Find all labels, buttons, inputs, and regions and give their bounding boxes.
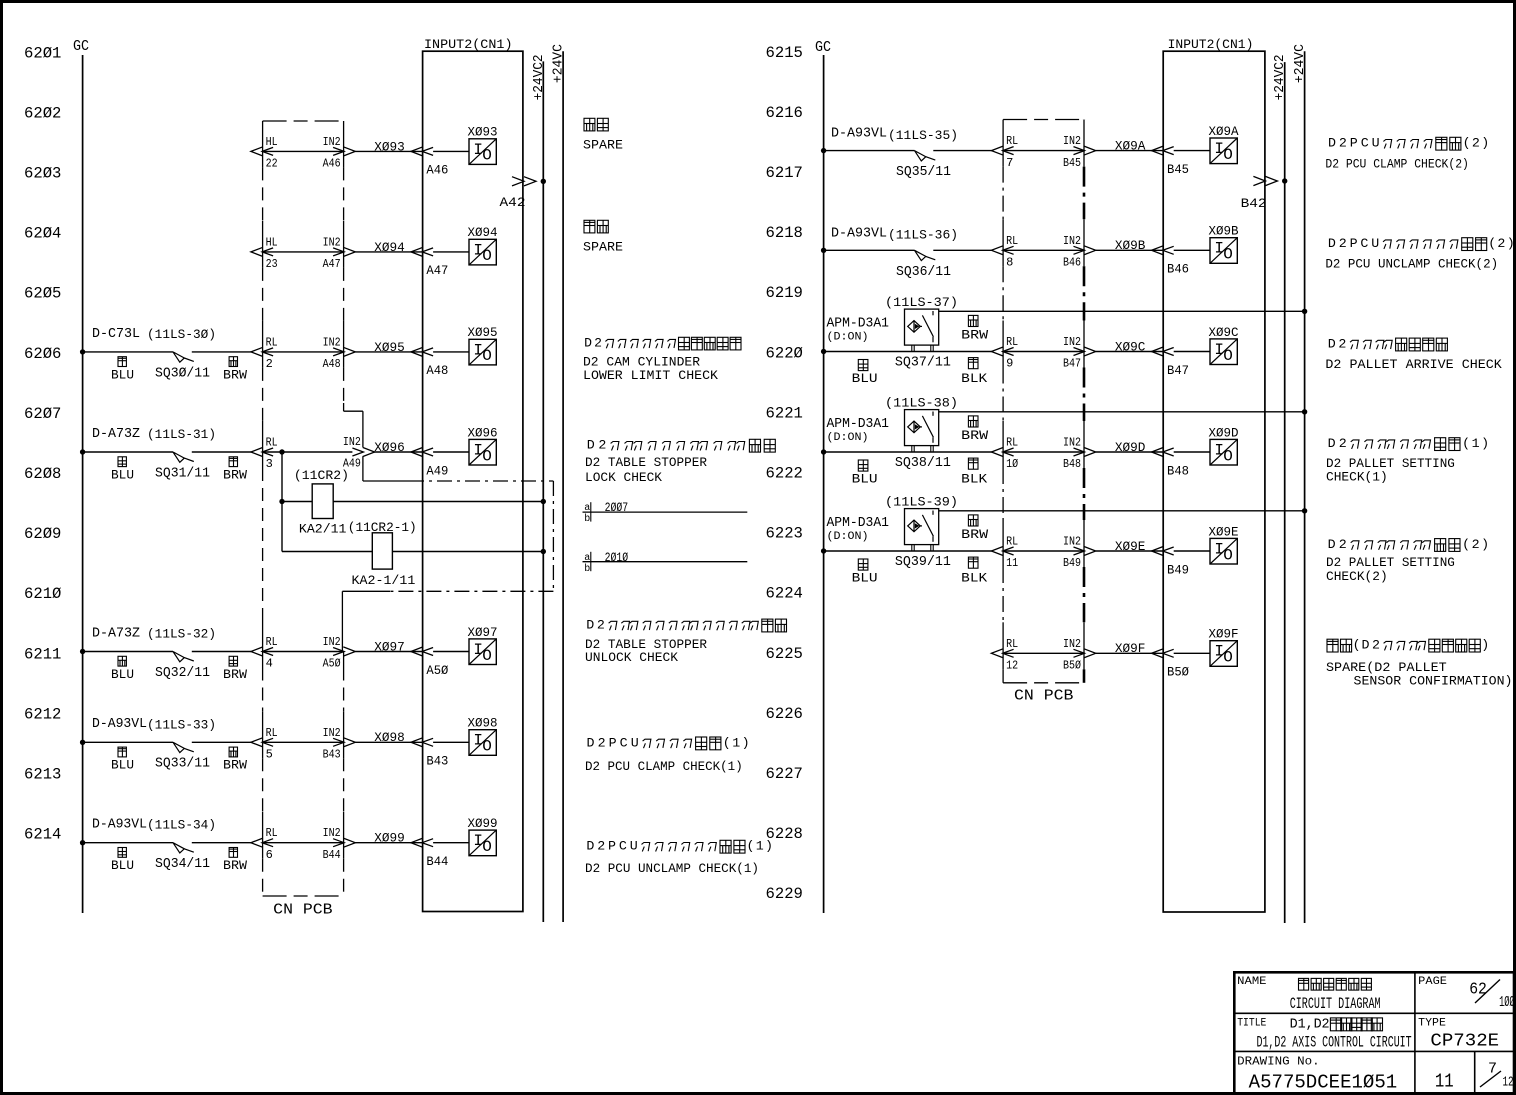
svg-text:A48: A48 [426,364,448,378]
svg-text:(11LS-39): (11LS-39) [885,495,958,510]
svg-text:62Ø1: 62Ø1 [24,44,61,62]
svg-text:INPUT2(CN1): INPUT2(CN1) [1168,37,1254,52]
svg-text:6225: 6225 [766,645,803,663]
svg-text:HL: HL [266,235,278,249]
svg-text:A47: A47 [323,257,341,271]
svg-text:SQ35/11: SQ35/11 [896,164,951,180]
wire color blue [858,360,868,371]
svg-text:(D:ON): (D:ON) [827,531,869,543]
I/O module X095 [469,339,496,365]
svg-text:IN2: IN2 [1063,637,1081,651]
proximity sensor 11LS-37 [905,309,939,345]
svg-text:IN2: IN2 [323,635,341,649]
svg-text:1: 1 [756,839,764,854]
svg-text:(11CR2): (11CR2) [294,468,349,483]
svg-text:B47: B47 [1063,357,1081,371]
svg-text:CIRCUIT DIAGRAM: CIRCUIT DIAGRAM [1290,995,1381,1013]
svg-text:RL: RL [1006,134,1018,148]
svg-text:IN2: IN2 [323,335,341,349]
wire color brown [968,315,978,326]
wire color brown [229,457,237,467]
limit switch SQ30/11 row [80,349,85,354]
svg-text:RL: RL [1006,637,1018,651]
svg-text:GC: GC [815,40,831,56]
svg-text:BRW: BRW [223,368,248,382]
svg-text:6215: 6215 [766,44,803,62]
title block frame [1234,972,1514,1093]
svg-text:D: D [1362,638,1370,653]
svg-text:U: U [631,735,639,750]
svg-text:D-A93VL: D-A93VL [92,818,147,833]
svg-text:D: D [1328,436,1336,451]
svg-text:BRW: BRW [223,859,248,873]
svg-text:C: C [620,735,628,750]
svg-text:BRW: BRW [223,668,248,682]
svg-text:B49: B49 [1063,556,1081,570]
svg-text:IN2: IN2 [1063,134,1081,148]
svg-text:D: D [1328,336,1336,351]
limit switch SQ36/11 row [821,248,826,253]
svg-text:2: 2 [594,336,602,351]
svg-text:XØ97: XØ97 [374,639,405,654]
svg-text:(: ( [1353,638,1361,653]
svg-text:XØ97: XØ97 [468,625,498,640]
svg-text:RL: RL [1006,234,1018,248]
wire X09F PCB to connector [1003,652,1084,654]
label spare pallet sensor [1327,639,1338,652]
svg-text:CN PCB: CN PCB [1014,689,1074,705]
svg-text:2: 2 [1321,1017,1329,1032]
wire X09A connector to I/O [1174,150,1210,152]
svg-text:APM-D3A1: APM-D3A1 [827,417,890,432]
svg-text:XØ9A: XØ9A [1115,139,1146,154]
svg-text:BLU: BLU [852,472,878,486]
svg-text:A5775DCEE1Ø51: A5775DCEE1Ø51 [1249,1071,1398,1093]
label spare row2 left [584,220,595,233]
svg-text:XØ9C: XØ9C [1209,325,1239,340]
I/O module X099 [469,830,496,856]
svg-text:621Ø: 621Ø [24,585,62,603]
wire X09E connector to I/O [1174,550,1210,552]
svg-text:C: C [1361,136,1369,151]
svg-text:IN2: IN2 [1063,535,1081,549]
svg-text:D-A73Z: D-A73Z [92,427,140,442]
svg-text:6212: 6212 [24,705,61,723]
svg-text:22: 22 [266,157,278,171]
svg-text:D-A93VL: D-A93VL [831,127,887,142]
svg-text:D: D [586,617,594,632]
svg-text:O: O [482,447,492,465]
svg-text:XØ96: XØ96 [468,425,498,440]
svg-text:6213: 6213 [24,766,61,784]
svg-text:D2 PALLET SETTING: D2 PALLET SETTING [1326,457,1455,471]
svg-text:RL: RL [1006,436,1018,450]
svg-text:D-C73L: D-C73L [92,327,140,342]
svg-text:(11LS-36): (11LS-36) [888,228,958,243]
svg-text:B43: B43 [323,748,341,762]
node junction X096 branch [279,449,284,454]
svg-text:D2 PCU UNCLAMP CHECK(1): D2 PCU UNCLAMP CHECK(1) [585,861,759,876]
wire color blue [858,559,868,570]
svg-text:XØ9A: XØ9A [1209,124,1239,139]
svg-text:D: D [587,735,595,750]
svg-text:D-A73Z: D-A73Z [92,626,140,641]
svg-text:C: C [619,839,627,854]
svg-text:BLU: BLU [111,759,134,773]
svg-text:2: 2 [1497,236,1505,251]
svg-text:D: D [584,336,592,351]
svg-text:D: D [1328,537,1336,552]
limit switch SQ33/11 row [80,740,85,745]
svg-text:BRW: BRW [961,528,989,542]
svg-text:O: O [1223,347,1233,365]
wire X09F connector to I/O [1174,652,1210,654]
I/O module X093 [469,139,496,165]
svg-text:): ) [765,839,773,854]
svg-text:(11LS-38): (11LS-38) [885,396,958,411]
mechanical link dash-dot path [363,480,409,482]
svg-text:A49: A49 [426,464,448,478]
svg-text:+24VC2: +24VC2 [532,54,547,100]
wire A49 drop with link path [343,403,345,411]
svg-text:XØ9E: XØ9E [1115,539,1146,554]
svg-text:O: O [482,147,492,165]
svg-text:RL: RL [266,436,278,450]
svg-text:XØ99: XØ99 [374,831,405,846]
svg-text:D: D [1328,236,1336,251]
wire X095 connector to I/O [433,351,469,353]
wire X099 connector to I/O [433,842,469,844]
svg-text:P: P [608,839,616,854]
svg-text:O: O [1223,649,1233,667]
sensor row SQ38/11 [821,449,826,454]
svg-text:D: D [1328,136,1336,151]
wire X09C PCB to connector [1003,351,1084,353]
sensor row SQ39/11 [821,548,826,553]
svg-text:): ) [742,735,750,750]
svg-text:62Ø9: 62Ø9 [24,525,61,543]
svg-text:SQ32/11: SQ32/11 [155,665,210,681]
svg-text:SQ39/11: SQ39/11 [895,554,951,570]
svg-text:SQ31/11: SQ31/11 [155,465,210,481]
svg-text:RL: RL [266,335,278,349]
svg-text:2Ø1Ø: 2Ø1Ø [605,550,629,565]
svg-text:IN2: IN2 [1063,335,1081,349]
svg-text:B48: B48 [1063,457,1081,471]
svg-text:SQ36/11: SQ36/11 [896,264,951,280]
svg-text:GC: GC [73,39,89,55]
svg-text:2: 2 [598,438,606,453]
svg-text:2: 2 [266,357,273,371]
svg-text:): ) [1481,136,1489,151]
svg-text:SENSOR CONFIRMATION): SENSOR CONFIRMATION) [1354,675,1513,689]
wire sensor supply to +24VC [939,310,1305,312]
I/O module X094 [469,239,496,265]
svg-text:): ) [1481,436,1489,451]
svg-text:CHECK(1): CHECK(1) [1326,471,1388,485]
I/O module X09E [1210,538,1237,564]
svg-text:XØ9B: XØ9B [1115,238,1146,253]
svg-text:,: , [1306,1017,1314,1032]
svg-text:(11LS-31): (11LS-31) [147,427,216,442]
wire X094 PCB to connector [263,251,344,253]
svg-text:(11LS-32): (11LS-32) [147,627,216,642]
svg-text:6218: 6218 [766,224,803,242]
limit switch SQ32/11 row [80,649,85,654]
wire X099 PCB to connector [263,842,344,844]
svg-text:XØ9F: XØ9F [1209,627,1239,642]
svg-text:2: 2 [1339,537,1347,552]
wire color black [968,358,978,369]
svg-text:D2 PCU CLAMP CHECK(2): D2 PCU CLAMP CHECK(2) [1325,158,1469,172]
svg-text:D: D [1290,1017,1298,1032]
svg-text:2: 2 [1372,638,1380,653]
svg-text:A5Ø: A5Ø [323,657,341,671]
svg-text:BLU: BLU [852,571,878,585]
tap B42 to +24VC2 [1253,176,1265,185]
svg-text:U: U [630,839,638,854]
wire X094 connector to I/O [433,251,469,253]
CN PCB board outline left [263,120,344,122]
svg-text:6219: 6219 [766,284,803,302]
svg-text:): ) [1481,537,1489,552]
svg-text:O: O [482,838,492,856]
svg-text:BLU: BLU [111,859,134,873]
svg-text:6217: 6217 [766,164,803,182]
svg-text:(: ( [1462,436,1470,451]
svg-text:+24VC: +24VC [552,44,567,83]
svg-text:62Ø8: 62Ø8 [24,465,61,483]
relay coil KA2-1/11 (11CR2-1) [282,551,543,553]
CN PCB board outline right [1003,119,1084,121]
svg-text:XØ9D: XØ9D [1115,440,1146,455]
svg-text:2: 2 [1339,436,1347,451]
svg-text:6222: 6222 [766,465,803,483]
svg-text:2: 2 [598,735,606,750]
svg-text:5: 5 [266,748,273,762]
svg-text:B44: B44 [323,848,341,862]
svg-text:B45: B45 [1063,156,1081,170]
svg-text:B46: B46 [1167,263,1189,277]
svg-text:(11LS-35): (11LS-35) [888,128,958,143]
svg-text:APM-D3A1: APM-D3A1 [827,516,890,531]
svg-text:B48: B48 [1167,464,1189,478]
wire X09D connector to I/O [1174,451,1210,453]
svg-text:SQ34/11: SQ34/11 [155,856,210,872]
svg-text:IN2: IN2 [323,135,341,149]
wire color black [968,557,978,568]
svg-text:A48: A48 [323,357,341,371]
svg-text:NAME: NAME [1237,976,1267,988]
svg-text:CN PCB: CN PCB [273,903,333,919]
wire X096 connector to I/O [433,451,469,453]
svg-text:9: 9 [1006,357,1013,371]
svg-text:BRW: BRW [961,329,989,343]
svg-text:SQ38/11: SQ38/11 [895,455,951,471]
svg-text:IN2: IN2 [323,235,341,249]
svg-text:b: b [584,513,590,525]
svg-text:PAGE: PAGE [1418,976,1447,988]
wire X09D PCB to connector [1003,451,1084,453]
svg-text:6226: 6226 [766,705,803,723]
svg-text:CP732E: CP732E [1430,1032,1499,1052]
svg-text:O: O [1223,246,1233,264]
svg-text:B44: B44 [426,855,448,869]
wire X098 connector to I/O [433,741,469,743]
svg-text:SQ3Ø/11: SQ3Ø/11 [155,365,210,381]
svg-text:B43: B43 [426,755,448,769]
svg-text:+24VC2: +24VC2 [1273,54,1288,100]
svg-text:11: 11 [1006,556,1018,570]
svg-text:RL: RL [1006,335,1018,349]
svg-text:XØ94: XØ94 [374,240,405,255]
svg-text:TITLE: TITLE [1237,1018,1267,1030]
limit switch SQ31/11 row [80,449,85,454]
svg-text:(: ( [747,839,755,854]
svg-text:XØ99: XØ99 [468,816,498,831]
svg-text:IN2: IN2 [343,435,361,449]
wire X09E PCB to connector [1003,550,1084,552]
wire sensor supply to +24VC [939,510,1305,512]
svg-text:BRW: BRW [223,759,248,773]
svg-text:INPUT2(CN1): INPUT2(CN1) [424,37,513,52]
svg-text:A47: A47 [426,264,448,278]
svg-text:KA2/11: KA2/11 [299,522,347,537]
svg-text:O: O [1223,546,1233,564]
wire color brown [229,656,237,666]
svg-text:KA2-1/11: KA2-1/11 [352,573,416,588]
svg-text:IN2: IN2 [323,726,341,740]
svg-text:D2 PALLET SETTING: D2 PALLET SETTING [1326,556,1455,570]
I/O module X097 [469,639,496,665]
svg-text:BLU: BLU [111,368,134,382]
svg-text:D2 PALLET ARRIVE CHECK: D2 PALLET ARRIVE CHECK [1325,358,1502,372]
svg-text:XØ95: XØ95 [374,340,405,355]
wire color brown [968,416,978,427]
tap A42 to +24VC2 [512,177,524,186]
limit switch SQ35/11 row [821,148,826,153]
wire X093 PCB to connector [263,150,344,152]
I/O module X098 [469,730,496,756]
svg-text:O: O [1223,447,1233,465]
svg-text:O: O [482,347,492,365]
svg-text:XØ93: XØ93 [374,139,405,154]
wire color blue [118,457,126,467]
svg-text:(: ( [1462,537,1470,552]
wire X097 PCB to connector [263,651,344,653]
svg-text:6229: 6229 [766,885,803,903]
wire color blue [118,357,126,367]
svg-text:SQ33/11: SQ33/11 [155,756,210,772]
svg-text:1: 1 [1472,436,1480,451]
svg-text:BLU: BLU [111,668,134,682]
svg-text:2: 2 [1339,136,1347,151]
label spare row1 left [584,118,595,131]
svg-text:C: C [1360,236,1368,251]
svg-text:1: 1 [1298,1017,1306,1032]
svg-text:12: 12 [1006,659,1018,673]
svg-text:B42: B42 [1241,196,1267,211]
svg-text:2: 2 [1472,537,1480,552]
limit switch SQ34/11 row [80,840,85,845]
svg-text:UNLOCK CHECK: UNLOCK CHECK [585,650,678,665]
wire X095 PCB to connector [263,351,344,353]
svg-text:2: 2 [1339,236,1347,251]
svg-text:CHECK(2): CHECK(2) [1326,570,1388,584]
svg-text:APM-D3A1: APM-D3A1 [827,317,890,332]
wire color brown [229,357,237,367]
svg-text:RL: RL [266,726,278,740]
svg-text:O: O [482,647,492,665]
svg-text:SPARE(D2 PALLET: SPARE(D2 PALLET [1326,661,1447,675]
svg-text:DRAWING No.: DRAWING No. [1237,1055,1319,1069]
terminal 2007 [583,511,748,513]
svg-text:3: 3 [266,457,273,471]
svg-text:D2 PCU UNCLAMP CHECK(2): D2 PCU UNCLAMP CHECK(2) [1325,257,1498,271]
wire X093 connector to I/O [433,150,469,152]
svg-text:XØ95: XØ95 [468,325,498,340]
svg-text:2: 2 [597,839,605,854]
svg-text:2: 2 [1472,136,1480,151]
svg-text:1: 1 [732,735,740,750]
svg-text:2: 2 [1338,336,1346,351]
wire color brown [229,848,237,858]
wire color black [968,458,978,469]
svg-text:62: 62 [1469,980,1487,999]
wire color blue [118,656,126,666]
svg-text:622Ø: 622Ø [766,344,804,362]
wire sensor supply to +24VC [939,411,1305,413]
svg-text:A46: A46 [323,157,341,171]
svg-text:XØ9E: XØ9E [1209,524,1239,539]
wire color brown [229,747,237,757]
svg-text:+24VC: +24VC [1293,44,1308,83]
proximity sensor 11LS-39 [905,509,939,545]
I/O module X09F [1210,641,1237,667]
svg-text:6: 6 [266,848,273,862]
svg-text:12: 12 [1503,1076,1514,1091]
wire X09B PCB to connector [1003,249,1084,251]
svg-text:XØ9B: XØ9B [1209,224,1239,239]
svg-text:6227: 6227 [766,765,803,783]
svg-text:D2 TABLE STOPPER: D2 TABLE STOPPER [585,455,707,470]
svg-text:BLK: BLK [961,571,988,585]
svg-text:XØ96: XØ96 [374,440,405,455]
svg-text:2ØØ7: 2ØØ7 [605,500,629,515]
svg-text:): ) [1507,236,1515,251]
svg-text:D: D [587,438,595,453]
svg-text:1Ø: 1Ø [1006,457,1018,471]
svg-text:23: 23 [266,257,278,271]
svg-text:6214: 6214 [24,826,61,844]
svg-text:(11LS-3Ø): (11LS-3Ø) [147,327,216,342]
svg-text:62Ø3: 62Ø3 [24,165,61,183]
I/O module X09A [1210,138,1237,164]
wire X09C connector to I/O [1174,351,1210,353]
svg-text:8: 8 [1006,256,1013,270]
svg-text:(D:ON): (D:ON) [827,432,869,444]
svg-text:TYPE: TYPE [1418,1018,1446,1030]
I/O module X096 [469,439,496,465]
svg-text:A5Ø: A5Ø [426,664,448,678]
svg-text:D-A93VL: D-A93VL [831,226,887,241]
svg-text:SQ37/11: SQ37/11 [895,355,951,371]
svg-text:BRW: BRW [223,468,248,482]
svg-text:BLK: BLK [961,472,988,486]
svg-text:(11LS-33): (11LS-33) [147,717,216,732]
svg-text:62Ø5: 62Ø5 [24,285,61,303]
svg-text:XØ98: XØ98 [374,730,405,745]
